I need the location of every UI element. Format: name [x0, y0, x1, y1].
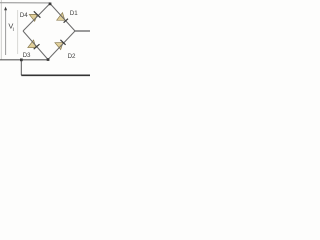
diode D1 triangle	[57, 13, 65, 21]
svg-text:D3: D3	[23, 52, 31, 59]
svg-text:D4: D4	[20, 12, 28, 19]
wire right output	[75, 30, 90, 32]
svg-text:D2: D2	[68, 53, 76, 60]
background	[0, 0, 90, 90]
wire drop from junction	[20, 60, 22, 75]
wire diamond T-L	[23, 4, 50, 32]
Vi source arrow	[4, 7, 7, 55]
wire diamond R-B	[48, 31, 75, 60]
wire diamond L-B	[23, 31, 48, 60]
wire diamond T-R	[50, 4, 75, 32]
svg-text:i: i	[13, 27, 14, 33]
diode D1 cathode bar	[64, 19, 68, 23]
node J junction dot	[20, 59, 23, 62]
node T junction dot	[49, 3, 52, 6]
left faint border line	[0, 0, 2, 60]
diode D3 cathode bar	[34, 44, 40, 49]
diode D3 triangle	[28, 40, 36, 48]
diode D4 triangle	[29, 14, 37, 21]
wire bottom-right output	[21, 74, 90, 76]
transformer secondary faint line	[17, 10, 19, 54]
diode D2 triangle	[55, 43, 63, 50]
wire bottom rail	[0, 59, 48, 61]
diode D2 cathode bar	[60, 40, 65, 45]
wire top rail	[0, 2, 50, 4]
diode D4 cathode bar	[34, 11, 41, 17]
svg-text:D1: D1	[70, 10, 78, 17]
node B junction dot	[47, 58, 50, 61]
